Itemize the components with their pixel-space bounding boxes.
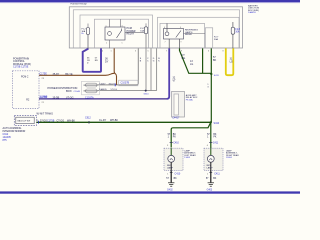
svg-text:1: 1 [207,173,208,175]
wire brown from PCM [39,73,114,75]
svg-text:35-DY: 35-DY [109,83,116,85]
svg-text:S410: S410 [214,122,220,125]
svg-text:3: 3 [122,25,123,27]
wire olive riser [202,48,204,73]
svg-text:BK: BK [213,59,217,62]
svg-text:LG: LG [190,63,193,66]
svg-text:35-DB: 35-DB [53,96,60,99]
PCM module box [13,71,40,109]
connector C411 below [209,171,212,173]
svg-text:G402: G402 [167,189,173,191]
svg-text:PK: PK [173,137,177,139]
svg-text:PCM C: PCM C [21,76,29,78]
svg-text:1: 1 [111,51,112,53]
svg-text:CL-DY: CL-DY [99,119,107,122]
lamp left bulb [170,148,172,155]
BJB relay section box [158,17,240,48]
fuse F1.9 symbol [144,27,147,34]
svg-text:9: 9 [181,51,182,53]
BJB fuse section box [80,15,153,48]
svg-text:8: 8 [223,51,224,53]
svg-text:BOX: BOX [66,89,72,93]
svg-text:14A003: 14A003 [248,11,256,14]
svg-text:C1040: C1040 [74,91,81,93]
svg-text:OG: OG [182,57,186,60]
svg-text:DY: DY [105,60,109,63]
svg-text:BK: BK [173,134,177,136]
connector C1037 box [119,80,138,86]
svg-text:3: 3 [167,145,168,147]
svg-text:2: 2 [85,51,86,53]
wire olive main vertical [210,48,212,122]
svg-text:VT-OG: VT-OG [66,96,74,99]
wire purple U loop [83,48,101,71]
wire to right lamp [210,122,212,148]
svg-text:7: 7 [166,51,167,53]
svg-text:RELAY: RELAY [127,33,135,36]
svg-text:1: 1 [167,173,168,175]
wire yellow U loop [226,48,234,75]
power distribution box outline [82,81,100,95]
svg-text:4: 4 [102,51,103,53]
svg-text:BACK-UP SW: BACK-UP SW [18,120,31,123]
connector C410 [170,142,173,144]
svg-text:14A005: 14A005 [99,88,107,91]
svg-text:BK: BK [213,178,217,180]
relay group box [94,19,148,48]
splice S on wire B [145,90,147,92]
svg-text:1: 1 [106,25,107,27]
svg-text:CT-OG: CT-OG [57,120,65,123]
relay2 group box [160,23,205,48]
svg-text:LAMP: LAMP [207,167,213,170]
svg-text:C411: C411 [214,172,220,175]
top border bar [0,0,300,2]
svg-text:F8 20A: F8 20A [186,99,193,102]
svg-text:6: 6 [208,51,209,53]
relay R2 reversing lamps relay box [164,29,184,40]
svg-text:C410: C410 [173,143,179,145]
lamp assembly right box [204,148,223,170]
wire branch to left lamp [171,122,211,147]
wire B horizontal [98,90,157,92]
svg-text:POWER DISTRIBUTION: POWER DISTRIBUTION [48,86,78,90]
svg-text:57-DG: 57-DG [111,89,118,91]
svg-text:C1037: C1037 [99,83,106,85]
wire olive relay output diagonal [180,48,212,73]
svg-text:BK: BK [174,178,178,180]
svg-text:BK-YE: BK-YE [65,73,73,76]
svg-text:WH-BK: WH-BK [67,120,75,123]
svg-text:PK: PK [213,137,217,139]
svg-text:G403: G403 [207,189,213,191]
svg-text:13405: 13405 [184,157,191,159]
backup lamp switch inner box [16,117,34,123]
svg-text:8T5: 8T5 [3,139,8,142]
svg-text:30A: 30A [235,30,240,33]
svg-text:7: 7 [165,42,166,44]
ground G403 [208,182,214,184]
svg-text:RD: RD [95,60,99,62]
svg-text:3: 3 [135,51,136,53]
relay U1 switch [117,31,122,39]
relay R2 coil [165,32,169,36]
splice S410 [210,121,212,123]
svg-text:35-DY: 35-DY [53,73,60,76]
svg-text:4: 4 [207,145,208,147]
aux relay box [172,92,185,118]
fuse A symbol [86,83,98,87]
relay R2 switch [176,31,181,38]
fuse F2.7 box [205,28,212,48]
fuse F2.8 symbol [231,27,234,34]
svg-text:9: 9 [181,42,182,44]
svg-text:F06 B AT 9T05 A2: F06 B AT 9T05 A2 [71,3,88,6]
wire gray vertical to fuse box wireA [98,48,139,85]
svg-text:LG: LG [230,60,233,63]
BJB inner box [73,10,239,48]
svg-text:S310: S310 [144,94,150,96]
svg-text:C1037A: C1037A [85,96,94,99]
brown connector tick [114,84,116,87]
svg-text:13404: 13404 [226,157,233,159]
svg-text:RELAY: RELAY [185,33,193,36]
svg-text:2: 2 [106,42,107,44]
svg-text:WH-BK: WH-BK [110,119,118,122]
page background [0,0,300,196]
svg-text:C175E: C175E [40,73,48,76]
svg-text:C411: C411 [213,143,219,145]
BJB outer box [69,7,242,48]
svg-text:8: 8 [180,27,181,29]
svg-text:W/ M/T TRANS: W/ M/T TRANS [37,113,54,116]
connector C411 [209,142,212,144]
svg-text:BK: BK [213,134,217,136]
wire violet PCM to relay coil [39,98,167,100]
svg-text:C912: C912 [85,117,91,120]
svg-text:5: 5 [122,42,123,44]
svg-text:C175B: C175B [47,120,55,123]
bottom border bar [0,191,300,193]
relay U1 pin stubs [109,19,111,27]
svg-text:30A: 30A [214,38,218,41]
wire gray verticals to wireB [150,48,152,90]
connector C410 below [170,171,173,173]
svg-text:C175B: C175B [40,95,48,98]
relay R2 pin stubs [168,39,170,48]
svg-text:5: 5 [148,51,149,53]
relay U1 coil [108,32,112,36]
svg-text:C4417: C4417 [172,117,180,120]
wire brown relay drop [114,48,116,85]
wire long green horizontal [37,121,212,123]
svg-text:S411: S411 [214,75,220,77]
fuse F1.2 symbol [86,28,89,35]
lamp assembly left box [164,148,183,170]
svg-text:6: 6 [164,27,165,29]
svg-text:LAMP: LAMP [167,167,173,170]
backup lamp switch outer box [14,115,36,125]
fuse B symbol [86,89,98,93]
relay U1 PCM power relay box [105,27,125,40]
ground G402 [168,182,174,184]
splice S411 [210,73,212,75]
svg-text:C1037B: C1037B [121,82,130,85]
svg-text:VT: VT [173,79,177,82]
wire relay2 to fuse F2.7 [184,33,206,35]
svg-text:C175B C175E: C175B C175E [13,66,29,69]
wire ground left [170,170,172,182]
lamp right bulb [210,148,212,155]
wire fuse F1.9 down to splice [145,34,147,91]
svg-text:C410: C410 [175,172,181,175]
wire ground right [210,170,212,182]
